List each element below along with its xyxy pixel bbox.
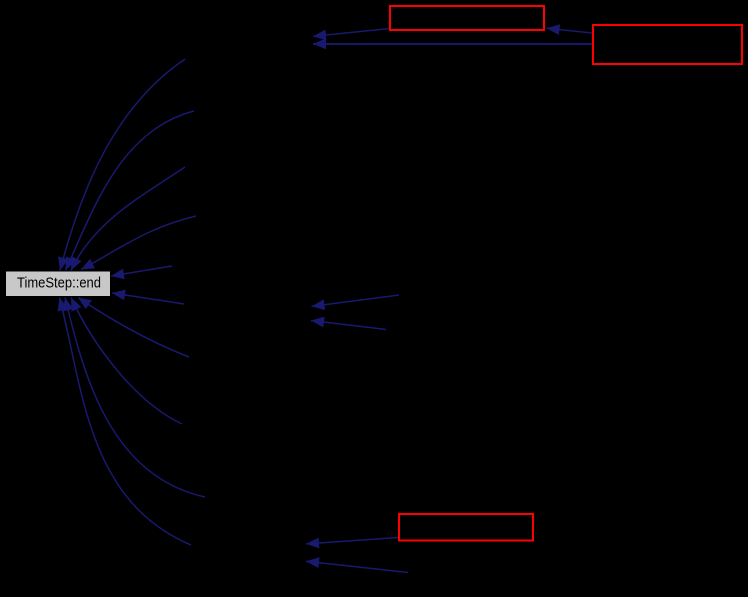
svg-text:TimeStep::end: TimeStep::end bbox=[17, 275, 101, 291]
node red box1 (truncated caller, top) bbox=[390, 6, 544, 30]
edge caller3 -> TimeStep::end (top curve 3) bbox=[71, 167, 185, 271]
edge caller2 -> TimeStep::end (top curve 2) bbox=[66, 111, 195, 271]
node red box2 (truncated caller, top right) bbox=[593, 25, 742, 64]
edge caller1 -> TimeStep::end (top curve 1) bbox=[60, 59, 185, 271]
edge caller7 -> TimeStep::end (bottom diagonal) bbox=[78, 298, 189, 358]
edge red box3 -> mid node M3 bbox=[306, 538, 398, 544]
edge right node -> mid node M2 (lower) bbox=[311, 321, 386, 330]
edge bottom right node -> mid node M3 bbox=[306, 561, 408, 572]
edge caller10 -> TimeStep::end (bottom curve 3) bbox=[60, 298, 192, 546]
edge red box1 -> mid node M1 bbox=[313, 29, 389, 37]
edge caller9 -> TimeStep::end (bottom curve 2) bbox=[65, 298, 205, 498]
edge right node -> mid node M2 (upper) bbox=[312, 295, 400, 306]
edge caller5 -> TimeStep::end (right upper straight) bbox=[111, 266, 172, 276]
edge red box2 -> mid node M1 bbox=[313, 43, 592, 45]
edge caller4 -> TimeStep::end (top diagonal) bbox=[81, 216, 196, 270]
edge caller6 -> TimeStep::end (right lower straight) bbox=[112, 293, 184, 304]
node TimeStep::end (current function, grey) bbox=[6, 272, 110, 297]
edge red box2 -> red box1 bbox=[547, 28, 593, 33]
edge caller8 -> TimeStep::end (bottom curve 1) bbox=[71, 298, 182, 425]
node red box3 (truncated caller, bottom) bbox=[399, 514, 533, 541]
